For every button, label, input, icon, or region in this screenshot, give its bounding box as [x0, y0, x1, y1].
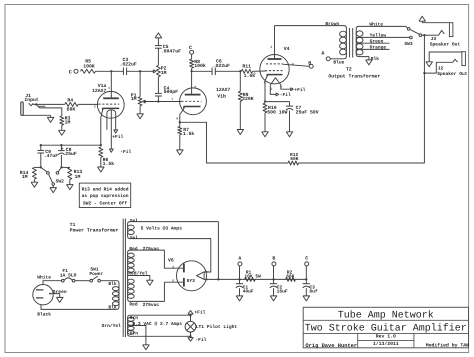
svg-text:Speaker Out: Speaker Out [437, 71, 468, 77]
svg-text:Blk: Blk [108, 304, 117, 310]
wire Green tap (unused) [356, 42, 389, 44]
node A terminal (supply) [238, 262, 242, 266]
svg-text:100k: 100k [194, 63, 206, 69]
svg-text:Yellow: Yellow [370, 33, 387, 39]
svg-text:Two Stroke Guitar Amplifier: Two Stroke Guitar Amplifier [305, 323, 467, 335]
svg-text:Red: Red [129, 246, 138, 252]
svg-text:68K: 68K [67, 107, 76, 113]
V1a cathode [102, 107, 119, 109]
svg-text:1M: 1M [65, 120, 71, 126]
transformer T1 primary winding [41, 281, 119, 310]
svg-text:Blk: Blk [108, 281, 117, 287]
V1a cathode lead down to R6 net [101, 110, 103, 145]
B+ rail wire [240, 278, 307, 280]
node C terminal (supply) [305, 262, 309, 266]
T2 core [349, 28, 351, 58]
resistor R4 [65, 102, 78, 106]
ground below C2 [270, 296, 277, 301]
AC plug P1 mains [33, 285, 53, 305]
wire P2 bottom to C4 [157, 77, 159, 94]
svg-text:Yel: Yel [130, 235, 139, 241]
capacitor C2 electrolytic [273, 279, 275, 283]
ground below R10 [264, 113, 266, 132]
triode V1a 12AX7 [97, 91, 124, 118]
svg-text:Red/Yel: Red/Yel [128, 271, 148, 277]
ground below C3 supply [303, 296, 310, 301]
svg-text:Yel: Yel [130, 218, 139, 224]
svg-text:Grn/Yel: Grn/Yel [102, 323, 122, 329]
capacitor C1 electrolytic [239, 279, 241, 283]
wire White lead to fuse [43, 281, 62, 285]
svg-text:Power: Power [89, 271, 103, 277]
resistor R10 [263, 103, 267, 113]
node A terminal [326, 57, 330, 61]
ground at HV center tap [147, 280, 154, 285]
node junction under C9 [40, 166, 42, 168]
V1a filament heater [107, 110, 116, 130]
wire junction to P1 top [139, 71, 141, 97]
jack J1 sleeve wire to ground [22, 114, 51, 116]
svg-text:5 Volts @3 Amps: 5 Volts @3 Amps [141, 226, 183, 232]
resistor R14 [34, 166, 40, 168]
ground below T2 Blk lead [366, 60, 373, 65]
ground below R14 [33, 179, 35, 182]
V4 heater +Fil wire [281, 85, 291, 89]
resistor R2 [286, 277, 296, 281]
svg-text:16uF: 16uF [277, 288, 288, 294]
switch SW1 Power [90, 279, 93, 282]
svg-text:+Fil: +Fil [112, 134, 123, 140]
wire junction to C6 [192, 70, 212, 72]
ground below SW2 [52, 185, 54, 187]
capacitor C7 electrolytic [289, 102, 291, 106]
V4 cathode [267, 74, 283, 76]
svg-text:275vac: 275vac [143, 246, 160, 252]
-Fil net arrow at heater [190, 336, 192, 337]
svg-text:J3: J3 [431, 36, 437, 42]
wire R12 to speaker jacks [299, 35, 425, 163]
svg-text:1: 1 [108, 86, 110, 91]
svg-text:4: 4 [172, 265, 174, 270]
capacitor C5 [155, 45, 162, 47]
switch SW2 center-off [41, 167, 47, 172]
svg-text:C: C [305, 256, 308, 262]
wire plug green pin to ground [50, 294, 60, 298]
wire V6 filament to B+ rail [204, 278, 239, 280]
wire heater center tap Grn/Yel to ground [128, 326, 146, 345]
wire feedback net cathode to R12 [180, 122, 288, 163]
wire C4 to grid net junction [157, 96, 159, 102]
svg-text:Input: Input [24, 97, 39, 103]
node junction speaker feed [423, 34, 425, 36]
svg-text:Modified by TAN: Modified by TAN [426, 342, 469, 348]
svg-text:A: A [321, 51, 324, 57]
svg-text:SW2: SW2 [56, 179, 65, 185]
V1a heater +Fil arrow and label [114, 130, 118, 133]
rectifier tube V6 5Y3 [177, 261, 207, 291]
svg-text:T2: T2 [346, 66, 352, 72]
capacitor C3 electrolytic (supply) [305, 279, 307, 283]
V1b cathode lead [180, 109, 184, 123]
svg-text:1M: 1M [161, 70, 167, 76]
svg-text:Grn: Grn [130, 330, 139, 336]
resistor R7 [179, 122, 181, 126]
svg-text:Output Transformer: Output Transformer [328, 74, 380, 80]
svg-text:White: White [369, 22, 383, 28]
svg-text:6: 6 [194, 85, 196, 90]
wire grid net P1-wiper to V1b grid [144, 101, 182, 103]
node C terminal (V1b plate supply) [190, 50, 194, 54]
svg-text:1M: 1M [131, 96, 137, 102]
svg-text:A: A [238, 256, 241, 262]
svg-text:25uF: 25uF [65, 151, 77, 157]
T1 6.3V heater winding [128, 315, 191, 336]
svg-text:J2: J2 [438, 66, 444, 72]
svg-text:5: 5 [254, 72, 256, 77]
resistor R13 [61, 166, 69, 168]
wire heater top Grn junction [189, 314, 191, 316]
resistor R12 [288, 161, 299, 165]
wire V4 screen to node B [283, 64, 310, 66]
wire 5V top Yel to B+ junction [217, 222, 219, 280]
resistor R3 [60, 116, 64, 125]
wire R8 to junction / plate [191, 68, 193, 94]
wire P2 to C5 [157, 48, 159, 65]
svg-text:Tube Amp Network: Tube Amp Network [338, 309, 434, 321]
svg-text:40uF: 40uF [243, 288, 254, 294]
svg-text:Orange: Orange [370, 45, 387, 51]
svg-text:.0047uF: .0047uF [161, 49, 181, 55]
svg-text:LT1 Pilot Light: LT1 Pilot Light [196, 324, 238, 330]
svg-text:1.5k: 1.5k [183, 131, 195, 137]
V1a plate and plate wire [103, 97, 119, 99]
svg-text:8uf: 8uf [309, 288, 318, 294]
svg-text:Red: Red [129, 302, 138, 308]
wire R5 to C3 with plate junction [96, 70, 124, 72]
svg-text:SW2 - Center Off: SW2 - Center Off [83, 200, 127, 206]
wire Orange tap (unused) [356, 48, 389, 50]
svg-text:500 10W: 500 10W [267, 109, 287, 115]
svg-text:White: White [37, 275, 51, 281]
wire Yellow tap to SW3 [356, 36, 409, 38]
svg-text:V1b: V1b [217, 93, 226, 99]
svg-text:25uF 50V: 25uF 50V [296, 109, 319, 115]
resistor R8 [191, 54, 193, 59]
wire J1 tip to R4 [33, 103, 65, 105]
wire HV center tap Red/Yel to ground [128, 276, 150, 281]
V1a heater -Fil arrow and label [109, 149, 113, 152]
ground (mirrored up) at J3 sleeve [419, 16, 426, 21]
resistor R5 [81, 69, 96, 73]
svg-text:12AX7: 12AX7 [216, 87, 231, 93]
svg-text:B: B [308, 60, 311, 66]
node B terminal (supply) [272, 262, 276, 266]
resistor R11 [241, 69, 252, 73]
svg-text:1.5k: 1.5k [103, 161, 115, 167]
jack J2 Speaker Out [423, 72, 425, 74]
svg-text:Black: Black [37, 311, 51, 317]
switch SW3 [407, 28, 410, 31]
svg-text:Grn: Grn [130, 315, 139, 321]
V1b grid (dashed) [181, 100, 201, 102]
wire J2 sleeve to ground [429, 52, 462, 62]
ground below R3 [61, 125, 63, 130]
wire R11 to V4 grid [253, 70, 266, 72]
svg-text:500pF: 500pF [164, 89, 179, 95]
svg-text:Blk: Blk [371, 56, 380, 62]
node B terminal [309, 64, 313, 68]
node C terminal (input to R5) [74, 69, 78, 73]
svg-text:Blue: Blue [333, 60, 344, 66]
svg-text:B: B [272, 256, 275, 262]
wire J3 sleeve to chassis [422, 22, 449, 24]
svg-text:Brown: Brown [325, 21, 339, 27]
svg-text:SW3: SW3 [404, 41, 413, 47]
svg-text:.47uF: .47uF [44, 153, 59, 159]
ground at J2 sleeve [426, 62, 433, 67]
svg-text:2: 2 [94, 105, 96, 110]
V4 plate and plate wire to T2 [268, 58, 282, 60]
capacitor C8 electrolytic [60, 145, 62, 150]
svg-text:Rev 1.0: Rev 1.0 [376, 334, 396, 340]
svg-text:C: C [189, 45, 192, 51]
V4 screen grid (dashed) [266, 63, 283, 65]
svg-text:R11: R11 [242, 64, 251, 70]
wire cathode junction to C7 [265, 101, 290, 103]
V6 filament [197, 272, 205, 280]
ground below C1 [236, 296, 243, 301]
wire cathode bus [41, 144, 101, 146]
svg-text:10K 5W: 10K 5W [244, 273, 261, 279]
V4 heater -Fil wire [270, 85, 276, 95]
capacitor C4 [155, 92, 162, 94]
V1b plate [185, 94, 201, 96]
svg-text:6: 6 [172, 279, 174, 284]
fuse F1 1A SLO [62, 279, 65, 282]
ground (mirrored up) above C5 [157, 38, 159, 46]
wire fuse to SW1 [75, 280, 90, 282]
node junction under C8 [60, 166, 62, 168]
potentiometer P2 [156, 65, 160, 76]
resistor R1 [245, 277, 256, 281]
svg-text:6.3 VAC @ 2.7 Amps: 6.3 VAC @ 2.7 Amps [132, 321, 182, 327]
transformer T2 secondary winding [356, 26, 407, 60]
T1 5V rectifier winding [128, 222, 219, 272]
wire heater bottom Grn junction [189, 335, 191, 337]
wire C6 to R11 junction [215, 70, 241, 72]
svg-text:68K: 68K [286, 273, 295, 279]
ground below C7 [286, 132, 293, 137]
svg-text:V6: V6 [168, 257, 174, 263]
svg-text:Power Transformer: Power Transformer [70, 227, 119, 233]
ground below R6 [100, 157, 102, 167]
note box: R13 and R14 added as pop supression, SW2 - Center Off [79, 183, 130, 207]
svg-text:R4: R4 [67, 97, 73, 103]
svg-text:+Fil: +Fil [194, 310, 205, 316]
svg-text:5Y3: 5Y3 [187, 278, 196, 284]
pilot light LT1 [190, 315, 192, 321]
svg-text:R13 and R14 added: R13 and R14 added [82, 187, 129, 193]
svg-text:1M: 1M [22, 174, 28, 180]
+Fil net arrow at heater [190, 314, 192, 315]
triode V1b 12AX7 [180, 88, 207, 115]
transformer T2 primary winding [275, 26, 347, 59]
title block [303, 307, 468, 348]
ground below R7 [179, 135, 181, 150]
ground below R13 [69, 180, 71, 185]
jack J1 Input [21, 102, 23, 115]
svg-text:7: 7 [171, 97, 173, 102]
power tube V4 [260, 54, 289, 83]
svg-text:V4: V4 [284, 46, 290, 52]
svg-text:Green: Green [370, 39, 384, 45]
svg-text:Speaker Out: Speaker Out [430, 41, 461, 47]
V6 plate bars [183, 264, 185, 273]
ground below P1 [139, 106, 141, 114]
svg-text:T1: T1 [70, 222, 76, 228]
svg-text:8: 8 [176, 116, 178, 121]
potentiometer P1 [138, 97, 142, 106]
V1a grid (dashed) [98, 103, 119, 105]
capacitor C6 [211, 68, 213, 76]
svg-text:as pop supression: as pop supression [82, 193, 129, 199]
jack J3 Speaker Out [424, 34, 438, 36]
svg-text:100K: 100K [83, 63, 95, 69]
svg-text:3: 3 [270, 45, 272, 50]
svg-text:1A SLO: 1A SLO [60, 272, 77, 278]
V4 filament heater [270, 78, 281, 85]
svg-text:220K: 220K [242, 96, 254, 102]
svg-text:275vac: 275vac [143, 302, 160, 308]
T1 HV winding [128, 250, 184, 301]
svg-text:1/13/2011: 1/13/2011 [373, 341, 399, 347]
svg-text:-Fil: -Fil [120, 149, 131, 155]
V1b cathode [184, 106, 201, 108]
svg-text:Orig Dave Hunter: Orig Dave Hunter [305, 343, 357, 349]
svg-text:50K: 50K [290, 156, 299, 162]
ground below R9 [239, 101, 241, 129]
svg-text:+Fil: +Fil [294, 87, 305, 93]
svg-text:12AX7: 12AX7 [92, 88, 107, 94]
capacitor C3 [122, 68, 124, 76]
svg-text:.022uF: .022uF [120, 62, 137, 68]
svg-text:C: C [69, 69, 72, 75]
jack J1 shorting contact wire to R3 [36, 104, 62, 116]
V4 cathode lead [265, 76, 267, 101]
ground at heater center tap [143, 345, 150, 350]
svg-text:1M: 1M [75, 174, 81, 180]
wire R4 to V1a grid [78, 103, 98, 105]
resistor R6 [99, 147, 103, 157]
V4 control grid (dashed) [265, 70, 283, 72]
svg-text:.022uF: .022uF [213, 63, 230, 69]
capacitor C9 [40, 145, 42, 150]
svg-text:-Fil: -Fil [195, 337, 206, 343]
T1 core [122, 219, 124, 337]
svg-text:-Fil: -Fil [280, 92, 291, 98]
wire C3 to P2 junction [127, 70, 154, 72]
resistor R9 [239, 71, 241, 91]
